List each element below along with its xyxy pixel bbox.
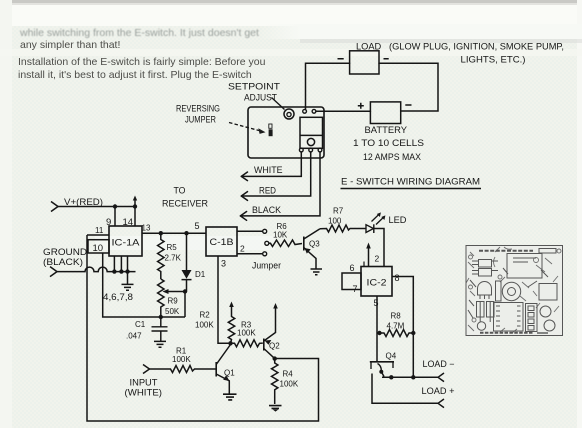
node V+ (RED) input chevron [51,202,58,212]
svg-text:Q2: Q2 [269,341,280,350]
E-switch top terminals [303,109,307,113]
wire pin13 to IC-1B [142,232,206,234]
svg-text:IC-1A: IC-1A [112,238,140,248]
svg-text:2: 2 [240,244,245,254]
E-switch inner relay box [300,117,323,148]
resistor R3 100K [231,340,263,347]
svg-text:REVERSING: REVERSING [176,104,220,114]
paragraph text (scanned) [20,27,259,40]
transistor Q3 [303,237,305,251]
svg-text:Q4: Q4 [386,351,397,360]
svg-text:E - SWITCH WIRING DIAGRAM: E - SWITCH WIRING DIAGRAM [341,177,480,188]
transistor Q2 [263,339,265,351]
svg-text:R8: R8 [391,311,402,320]
svg-text:10: 10 [93,243,104,254]
svg-text:BLACK: BLACK [252,205,281,215]
node GROUND (BLACK) chevron [50,267,57,277]
wiper arm of R9 [166,292,185,318]
wire IC-1A pins 4,6,7,8 drop [114,256,127,272]
node INPUT (WHITE) chevron [143,365,150,374]
svg-text:5: 5 [374,298,379,308]
scan left white edge [0,0,12,428]
svg-text:BATTERY: BATTERY [365,125,408,135]
resistor R5 2.7K [158,233,164,279]
svg-text:ADJUST: ADJUST [244,93,278,103]
wire pin10 drop [103,253,185,317]
svg-text:10K: 10K [273,230,288,239]
faded band artifacts [260,24,582,39]
ground symbol below IC-1A [122,272,134,291]
svg-text:RED: RED [259,185,276,195]
ground at Q1 [223,394,237,400]
svg-text:R2: R2 [200,311,211,320]
resistor R2 100K [228,306,234,344]
wire LOAD plus rail [372,374,438,404]
transistor Q1 [215,362,217,377]
svg-text:R4: R4 [283,369,294,378]
battery minus mark [405,104,411,106]
svg-text:GROUND: GROUND [43,247,87,257]
resistor R6 10K [265,241,269,245]
svg-text:4.7M: 4.7M [387,321,405,330]
svg-text:Q3: Q3 [309,239,320,248]
wire ground bus with hops [57,267,136,272]
wire white lead [241,152,301,176]
svg-text:(BLACK): (BLACK) [43,257,83,267]
svg-text:100K: 100K [237,328,256,337]
scan right white edge [577,0,582,428]
wire pin8 to rail [392,277,413,378]
svg-text:11: 11 [95,226,104,235]
capacitor C1 .047 [159,315,163,319]
wire top rail E-switch to LOAD [306,63,350,109]
svg-text:50K: 50K [165,307,180,316]
resistor R8 4.7M [377,331,381,335]
svg-text:INPUT: INPUT [130,377,159,387]
load polarity dashes [338,58,389,60]
svg-text:100K: 100K [172,355,191,364]
wire LED cathode to IC-2 [374,229,384,267]
wire LOAD minus rail [382,376,438,378]
svg-text:1 TO 10 CELLS: 1 TO 10 CELLS [353,138,424,148]
svg-text:RECEIVER: RECEIVER [162,198,208,208]
wire E-switch to battery left [316,110,370,112]
diode D1 [186,233,188,270]
resistor R7 100 [320,225,366,232]
wire pin5 down [376,296,378,362]
svg-text:8: 8 [395,273,400,283]
wire pin9 riser [114,207,116,227]
svg-text:5: 5 [195,221,200,231]
wire black lead [240,152,320,216]
svg-text:SETPOINT: SETPOINT [228,82,281,92]
battery plus mark [358,103,364,109]
svg-text:TO: TO [174,185,186,195]
svg-text:12 AMPS MAX: 12 AMPS MAX [363,152,421,162]
op-amp IC-1B [206,227,237,256]
svg-text:4,6,7,8: 4,6,7,8 [103,292,133,302]
svg-text:R9: R9 [168,296,179,305]
svg-text:IC-2: IC-2 [367,277,387,287]
wire V+ rail [58,206,135,208]
svg-text:LED: LED [389,215,407,225]
svg-text:JUMPER: JUMPER [185,115,216,125]
PCB layout photo [466,246,563,336]
load box [350,51,379,74]
svg-text:2: 2 [375,254,380,264]
box pin10 [88,240,109,253]
op-amp IC-1A [109,226,142,256]
svg-text:7: 7 [353,284,358,294]
E-switch module box [248,107,324,158]
svg-text:13: 13 [142,224,151,233]
svg-text:LOAD −: LOAD − [423,359,455,369]
svg-text:6: 6 [350,263,355,273]
wire V+ stub arrow up [134,200,136,207]
wire red lead [241,152,310,196]
wire pin2 arrow up [368,248,370,267]
svg-text:V+(RED): V+(RED) [64,197,103,207]
setpoint adjust pot [284,109,294,119]
jumper posts J1 [237,230,263,232]
svg-text:LIGHTS, ETC.): LIGHTS, ETC.) [461,55,526,65]
timer IC-2 [361,267,392,297]
wire LOAD to battery right riser [379,63,438,111]
svg-text:.047: .047 [126,331,142,340]
svg-text:100K: 100K [195,320,214,329]
ground at R4 [269,406,282,409]
svg-text:R7: R7 [333,206,344,215]
wire feedback rail (pin11 loop) [87,235,319,421]
svg-text:Jumper: Jumper [252,260,281,270]
wire pin14 riser [134,207,136,227]
svg-text:C1: C1 [135,320,146,329]
svg-text:LOAD +: LOAD + [422,386,455,396]
LED D2 [366,225,374,233]
resistor R1 100K [150,366,217,373]
svg-text:WHITE: WHITE [254,165,283,175]
svg-text:LOAD (GLOW PLUG, IGNITION, S: LOAD (GLOW PLUG, IGNITION, SMOKE PUMP, [356,42,564,52]
svg-text:100: 100 [328,216,342,225]
wire pin11 [87,234,109,236]
battery B1 [370,102,400,124]
wire IC-1B pin3 to Q1 collector node [218,256,231,343]
svg-text:D1: D1 [195,270,206,279]
svg-text:Q1: Q1 [224,368,235,377]
svg-text:100K: 100K [280,379,299,388]
svg-text:3: 3 [221,258,226,268]
potentiometer R9 50K [158,279,164,317]
ground at Q3 [311,269,323,275]
E-switch bottom terminals [299,148,303,152]
svg-text:C-1B: C-1B [210,237,234,247]
resistor R4 100K [272,359,278,404]
svg-text:R5: R5 [167,243,178,252]
svg-text:(WHITE): (WHITE) [125,387,163,397]
reversing jumper posts [269,124,272,128]
svg-text:2.7K: 2.7K [165,253,182,262]
scan top white band [0,0,582,26]
